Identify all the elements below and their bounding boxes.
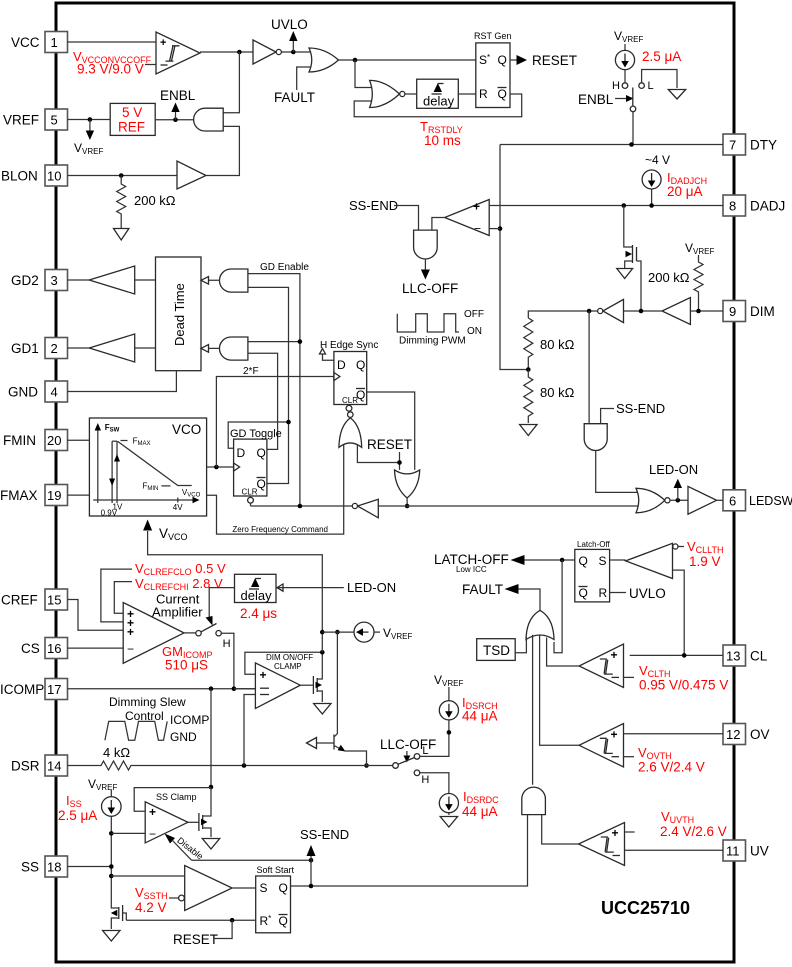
net SS-END input label <box>349 198 419 230</box>
svg-text:FMAX: FMAX <box>0 488 38 503</box>
svg-text:4.2 V: 4.2 V <box>135 900 167 915</box>
label TRSTDLY 10 ms <box>420 119 463 148</box>
svg-text:2.4 μs: 2.4 μs <box>240 606 277 621</box>
wire toggle CLR stub <box>250 503 252 506</box>
wire AND5 left input from soft start Q <box>311 815 528 886</box>
svg-text:9.3 V/9.0 V: 9.3 V/9.0 V <box>77 62 144 77</box>
net RESET label bottom <box>173 920 232 947</box>
wire clamp minus2 to DSR <box>244 695 255 766</box>
svg-text:+: + <box>260 668 267 682</box>
ground below 200k <box>114 222 129 240</box>
and-gate AND1 GD2 (left) <box>201 269 248 292</box>
svg-text:OFF: OFF <box>464 309 484 320</box>
svg-text:LED-ON: LED-ON <box>347 580 396 595</box>
svg-text:5 V: 5 V <box>122 105 142 120</box>
svg-text:Q: Q <box>579 586 588 600</box>
svg-text:16: 16 <box>47 641 61 656</box>
svg-text:UVLO: UVLO <box>271 17 308 32</box>
wire HFF Qbar to OR2 <box>367 392 415 470</box>
wire VCO out to GD Toggle clock <box>207 466 234 468</box>
comparator VOVTH <box>579 724 634 768</box>
node soft start Q <box>309 884 314 889</box>
node DSR bjt tap <box>364 763 369 768</box>
wire NOR-CLR right input from RESET <box>357 444 399 463</box>
node SS clamp minus <box>109 831 114 836</box>
svg-text:L: L <box>422 745 428 757</box>
svg-text:H: H <box>223 638 231 650</box>
svg-text:UVLO: UVLO <box>629 586 666 601</box>
ground for L contact <box>668 90 685 100</box>
svg-text:DIM ON/OFF: DIM ON/OFF <box>266 653 313 662</box>
svg-text:GND: GND <box>8 385 38 400</box>
svg-text:+: + <box>127 625 134 639</box>
op-amp SS Clamp <box>145 792 196 843</box>
buffer BLON <box>177 161 206 189</box>
svg-text:SS-END: SS-END <box>616 401 665 416</box>
svg-text:Q: Q <box>257 446 266 460</box>
node GD Enable tap <box>298 504 303 509</box>
wire CLLTH input from CL <box>673 570 685 655</box>
svg-text:80 kΩ: 80 kΩ <box>540 385 575 400</box>
svg-text:12: 12 <box>726 727 740 742</box>
pin 16 CS <box>21 638 68 659</box>
wire buffer to ENBL AND lower input <box>206 126 239 175</box>
wire delay1 to R input <box>458 93 476 95</box>
op-amp Current Amplifier <box>123 592 203 664</box>
net ENBL switch label arrow <box>578 92 634 107</box>
svg-text:Q: Q <box>356 358 365 372</box>
svg-text:SS-END: SS-END <box>300 827 349 842</box>
svg-text:44 μA: 44 μA <box>462 709 498 724</box>
wire DIM pin row <box>690 310 723 312</box>
net SS-END output label arrow <box>300 827 349 886</box>
svg-text:TSD: TSD <box>483 643 510 658</box>
wire UV pin row <box>625 849 724 851</box>
pin 13 CL <box>723 645 768 666</box>
wire node to NOR1 upper input <box>355 60 371 88</box>
comparator U-VCC (VCC UVLO comparator) <box>156 32 200 74</box>
or-gate OR-FAULT (up, 5 input) <box>526 610 554 639</box>
svg-text:2.5 μA: 2.5 μA <box>58 808 97 823</box>
wire CL comp to fault OR <box>547 638 580 667</box>
net UVLO label arrow <box>271 17 308 52</box>
wire SS comp out to S <box>232 887 256 889</box>
pin 12 OV <box>723 724 770 745</box>
current source ISS 2.5uA <box>58 790 121 833</box>
node R reset <box>230 918 235 923</box>
net LLC-OFF switch label arrow <box>380 737 436 763</box>
svg-text:Dead Time: Dead Time <box>172 283 187 346</box>
wire AND1 bottom input from toggle Qbar <box>248 287 289 483</box>
pin 2 GD1 <box>11 338 68 359</box>
svg-text:SS: SS <box>21 860 39 875</box>
pin 14 DSR <box>11 755 68 776</box>
svg-text:delay: delay <box>241 588 273 603</box>
node DSR clamp tap <box>242 763 247 768</box>
flip-flop GD Toggle <box>230 428 282 503</box>
node toggle feedback <box>286 420 291 425</box>
svg-text:0.95 V/0.475 V: 0.95 V/0.475 V <box>639 678 728 693</box>
svg-text:FAULT: FAULT <box>274 90 315 105</box>
svg-text:CREF: CREF <box>1 593 38 608</box>
wire CS pin to amp minus <box>68 647 124 649</box>
svg-text:ENBL: ENBL <box>160 88 196 103</box>
svg-text:CLR: CLR <box>242 488 258 497</box>
and-gate AND3 LLC-OFF (down) <box>414 230 438 259</box>
node sync line <box>405 504 410 509</box>
wire toggle Qbar feedback to D <box>228 422 288 448</box>
node LED-ON <box>676 498 681 503</box>
wire clamp plus feedback <box>245 652 322 674</box>
svg-text:UV: UV <box>750 844 769 859</box>
svg-text:2: 2 <box>51 341 58 356</box>
node DTY at comparator minus <box>498 226 503 231</box>
svg-text:RESET: RESET <box>367 437 412 452</box>
switch GM output <box>184 624 231 651</box>
svg-text:11: 11 <box>726 844 740 859</box>
VCO graph curve <box>101 437 201 518</box>
svg-text:S: S <box>260 881 268 895</box>
wire VREF pin to 5V REF <box>68 119 111 121</box>
svg-text:2.5 μA: 2.5 μA <box>642 49 681 64</box>
switch blade and pole <box>630 88 636 145</box>
svg-text:DSR: DSR <box>11 759 40 774</box>
svg-text:+: + <box>149 805 156 819</box>
node ENBL <box>173 117 178 122</box>
wire buffer4 to inverter3 <box>624 310 663 312</box>
pin 19 FMAX <box>0 485 68 506</box>
svg-text:UCC25710: UCC25710 <box>601 898 690 918</box>
svg-text:D: D <box>237 446 246 460</box>
pin 9 DIM <box>723 301 775 322</box>
net UVLO label at R <box>610 586 666 601</box>
ground M3 <box>202 839 219 850</box>
resistor 200k DIM <box>648 255 703 311</box>
or-gate OR2 (down) <box>395 470 420 498</box>
net RESET output arrow <box>510 53 577 68</box>
wire OV comp to fault OR <box>540 636 580 746</box>
node DADJ mosfet drain <box>622 203 627 208</box>
wire AND4 left input from divider <box>588 311 590 424</box>
svg-text:13: 13 <box>726 649 740 664</box>
and-gate AND5 UV gate (up) <box>522 787 546 814</box>
and-gate AND2 GD1 (left) <box>201 337 248 360</box>
wire H Edge Sync D input <box>320 349 334 361</box>
wire SS clamp minus <box>111 832 145 834</box>
comparator VCLLTH open-led detect <box>626 543 684 578</box>
wire SS net vertical <box>110 833 112 903</box>
svg-text:SS-END: SS-END <box>349 198 398 213</box>
svg-text:Soft Start: Soft Start <box>257 865 295 875</box>
net FAULT output label arrow <box>462 582 540 610</box>
net VVREF label top right <box>614 29 643 44</box>
wire NOR4 to buffer5 <box>670 499 689 501</box>
svg-text:RESET: RESET <box>532 53 577 68</box>
current source IDSRDC 44uA <box>420 773 499 819</box>
svg-text:9: 9 <box>729 304 736 319</box>
current source IDSRCH 44uA <box>420 687 498 756</box>
wire DSR to switch pole <box>255 765 393 767</box>
svg-text:Zero Frequency Command: Zero Frequency Command <box>232 525 328 534</box>
svg-text:RESET: RESET <box>173 932 218 947</box>
node SS clamp drain <box>209 785 214 790</box>
wire AND out to 5V REF <box>155 119 193 121</box>
flip-flop Latch-Off <box>575 549 610 602</box>
svg-text:CL: CL <box>750 649 768 664</box>
pin 18 SS <box>21 856 68 877</box>
node OR1 out <box>353 58 358 63</box>
ground divider <box>520 425 537 436</box>
node BJT collector tap <box>335 630 340 635</box>
wire OV pin row <box>624 733 724 735</box>
inverter INV2 sync (left) <box>352 499 378 518</box>
node VREF src <box>320 630 325 635</box>
svg-text:200 kΩ: 200 kΩ <box>648 270 690 285</box>
svg-text:VREF: VREF <box>3 113 39 128</box>
svg-text:RST Gen: RST Gen <box>474 31 511 41</box>
svg-text:510 μS: 510 μS <box>165 658 208 673</box>
net SS-END label to AND4 <box>601 401 666 424</box>
wire comparator node down to ENBL AND top input <box>223 52 239 113</box>
flip-flop RST Gen <box>474 31 511 108</box>
waveform Dimming PWM <box>397 309 484 347</box>
transistor M4 SS discharge <box>111 903 127 929</box>
svg-text:FMIN: FMIN <box>3 433 36 448</box>
pin 6 LEDSW <box>723 490 792 511</box>
svg-text:S: S <box>599 554 607 568</box>
wire comparator out to inverter <box>200 51 253 53</box>
svg-text:CLAMP: CLAMP <box>274 662 302 671</box>
node RESET <box>397 460 402 465</box>
wire SS comp plus input <box>111 875 184 877</box>
node SS comp plus <box>109 874 114 879</box>
svg-text:ENBL: ENBL <box>578 92 614 107</box>
label VVCCON/VCCOFF threshold <box>73 49 156 77</box>
svg-text:FAULT: FAULT <box>462 582 503 597</box>
ground M2 <box>314 704 331 715</box>
node ICOMP slew <box>209 686 214 691</box>
svg-text:0.9V: 0.9V <box>101 509 118 518</box>
label GM ICOMP 510uS <box>162 644 212 673</box>
svg-text:Dimming PWM: Dimming PWM <box>399 336 466 347</box>
svg-text:SS Clamp: SS Clamp <box>156 792 197 802</box>
block VCO <box>89 418 206 516</box>
wire latch Q to fault OR <box>554 560 562 653</box>
wire AND4 out to NOR4 <box>596 451 638 493</box>
label VCLTH threshold <box>639 663 728 693</box>
svg-text:18: 18 <box>47 860 61 875</box>
current source IDADJCH 20uA <box>642 170 707 206</box>
waveform dimming slew <box>105 713 209 744</box>
svg-text:BLON: BLON <box>1 169 38 184</box>
net RESET label mid <box>367 437 412 470</box>
node DTY <box>629 142 634 147</box>
wire CL pin row <box>630 654 723 656</box>
wire 2*F to H Edge Sync clock <box>216 377 334 468</box>
wire TSD to fault OR <box>515 637 526 653</box>
svg-text:CS: CS <box>21 641 40 656</box>
resistor 200k BLON <box>117 176 176 223</box>
wire DTY comp minus to vertical <box>489 228 500 230</box>
svg-text:GD1: GD1 <box>11 341 39 356</box>
svg-text:Amplifier: Amplifier <box>152 605 203 620</box>
svg-text:−: − <box>149 827 156 841</box>
buffer GD1 driver <box>68 334 156 362</box>
svg-text:−: − <box>474 222 481 236</box>
comparator SS threshold <box>179 866 233 911</box>
wire clamp minus1 to ICOMP <box>234 688 256 690</box>
wire NOR1 to delay1 <box>405 93 417 95</box>
wire AND2 bottom input from toggle Q <box>248 353 278 449</box>
op-amp DIM ON/OFF CLAMP <box>255 653 313 708</box>
wire DADJ row <box>489 205 723 207</box>
wire zero frequency command <box>207 445 344 534</box>
svg-text:Q: Q <box>498 53 507 67</box>
pin 1 VCC <box>11 32 68 53</box>
svg-text:GD2: GD2 <box>11 273 39 288</box>
wire FMAX pin to VCO <box>68 494 90 496</box>
delay block 2.4us <box>235 574 278 621</box>
wire VCLREFCLO to amp plus2 <box>101 569 132 622</box>
buffer LEDSW out <box>688 486 723 514</box>
label VOVTH threshold <box>638 745 705 775</box>
wire VCC pin to comparator <box>68 41 157 43</box>
node DIM resistor <box>696 309 701 314</box>
resistor 80k lower <box>524 370 575 424</box>
svg-text:Low ICC: Low ICC <box>456 565 487 574</box>
label Disable arrow <box>165 834 312 862</box>
svg-text:REF: REF <box>118 120 145 135</box>
svg-text:Q: Q <box>498 87 507 101</box>
svg-text:1.9 V: 1.9 V <box>689 554 721 569</box>
transistor Q1 DSR discharge <box>307 632 367 765</box>
svg-text:19: 19 <box>47 488 61 503</box>
delay block T-RSTDLY <box>417 79 459 108</box>
wire CLLTH out to S <box>610 559 626 561</box>
svg-text:1: 1 <box>51 35 58 50</box>
svg-text:LLC-OFF: LLC-OFF <box>402 281 458 296</box>
regulator block 5 V REF <box>110 103 155 135</box>
svg-text:D: D <box>337 358 346 372</box>
net VVCO label arrow <box>143 520 187 543</box>
svg-text:+: + <box>160 37 166 49</box>
svg-text:LED-ON: LED-ON <box>649 462 698 477</box>
net VVREF label arrow down <box>74 120 103 157</box>
svg-text:Dimming Slew: Dimming Slew <box>109 695 186 709</box>
node UVLO <box>291 50 296 55</box>
node clamp feedback <box>320 650 325 655</box>
and-gate ENBL AND (left pointing) <box>194 108 224 131</box>
net LLC-OFF output arrow <box>402 259 458 296</box>
pin 7 DTY <box>723 134 777 155</box>
node VREF <box>88 117 93 122</box>
svg-text:+: + <box>473 200 480 214</box>
comparator VUVTH <box>579 823 635 866</box>
node DADJ source <box>649 203 654 208</box>
svg-text:17: 17 <box>47 682 61 697</box>
svg-text:GD Enable: GD Enable <box>260 262 309 273</box>
switch ENBL H/L contacts <box>612 70 677 93</box>
wire GND pin to dead time <box>68 371 177 392</box>
svg-text:7: 7 <box>729 138 736 153</box>
svg-text:2*F: 2*F <box>243 366 259 377</box>
pin 20 FMIN <box>3 430 68 451</box>
wire VVCO riser <box>148 531 323 652</box>
wire inverter3 out to divider top <box>528 311 597 318</box>
wire VCLREFCHI to amp plus1 <box>114 582 132 614</box>
comparator VCLTH <box>579 644 634 687</box>
wire OR2 out to sync line <box>406 498 408 506</box>
svg-text:Q: Q <box>279 914 288 928</box>
svg-text:Q: Q <box>579 554 588 568</box>
net LATCH-OFF label arrow <box>434 552 575 574</box>
wire ICOMP pin row <box>68 688 256 690</box>
current source VVREF ICOMP charge <box>322 622 412 642</box>
wire Soft Start Q out <box>291 885 312 887</box>
svg-text:R: R <box>479 87 488 101</box>
pin 15 CREF <box>1 589 68 610</box>
inverter U-UVLO <box>253 40 281 64</box>
label VSSTH 4.2 V <box>135 885 179 915</box>
transistor M3 SS clamp fet <box>188 788 211 837</box>
svg-text:VCC: VCC <box>11 35 40 50</box>
pin 8 DADJ <box>723 195 785 216</box>
or-gate OR1 (UVLO or FAULT) <box>309 48 339 72</box>
svg-text:DADJ: DADJ <box>750 199 785 214</box>
pin 10 BLON <box>1 165 68 186</box>
svg-text:14: 14 <box>47 759 61 774</box>
svg-text:~4 V: ~4 V <box>645 153 670 167</box>
resistor 4k DSR <box>68 745 256 770</box>
label VCLLTH 1.9 V <box>687 539 724 569</box>
inverter DIM div <box>598 299 624 322</box>
svg-text:10 ms: 10 ms <box>424 133 461 148</box>
svg-text:4V: 4V <box>173 503 183 512</box>
node SS pin <box>109 864 114 869</box>
svg-text:+: + <box>612 826 619 840</box>
svg-text:H: H <box>612 80 620 92</box>
net ENBL label arrow <box>160 88 196 120</box>
node DIM gate drive <box>639 309 644 314</box>
flip-flop Soft Start <box>256 865 295 933</box>
svg-text:15: 15 <box>47 593 61 608</box>
svg-text:200 kΩ: 200 kΩ <box>134 193 176 208</box>
svg-text:2.6 V/2.4 V: 2.6 V/2.4 V <box>638 760 705 775</box>
nor-gate NOR1 (reset pulse) <box>370 80 405 107</box>
current source 2.5uA ENBL pullup <box>615 44 681 70</box>
wire LED-ON into delay2 <box>276 580 396 595</box>
and-gate AND4 SS-END gate (down) <box>584 424 607 451</box>
ground M4 <box>103 931 120 942</box>
nor-gate NOR-CLR (up) <box>339 412 362 448</box>
svg-text:ON: ON <box>467 326 482 337</box>
svg-text:R: R <box>599 586 608 600</box>
node divider mid <box>526 367 531 372</box>
wire FMIN pin to VCO <box>68 439 90 441</box>
svg-text:OV: OV <box>750 727 770 742</box>
wire sync line long <box>251 505 353 507</box>
node AND2 top input on GD Enable <box>248 339 302 344</box>
wire SS pin row <box>68 866 112 868</box>
block Dead Time <box>156 257 202 371</box>
svg-text:3: 3 <box>51 273 58 288</box>
wire BLON pin to buffer <box>68 175 178 177</box>
svg-text:delay: delay <box>423 94 455 109</box>
nor-gate NOR4 LEDSW <box>636 488 670 513</box>
node ICOMP switch <box>232 686 237 691</box>
pin 3 GD2 <box>11 270 68 291</box>
ground IDSRDC <box>440 817 457 828</box>
